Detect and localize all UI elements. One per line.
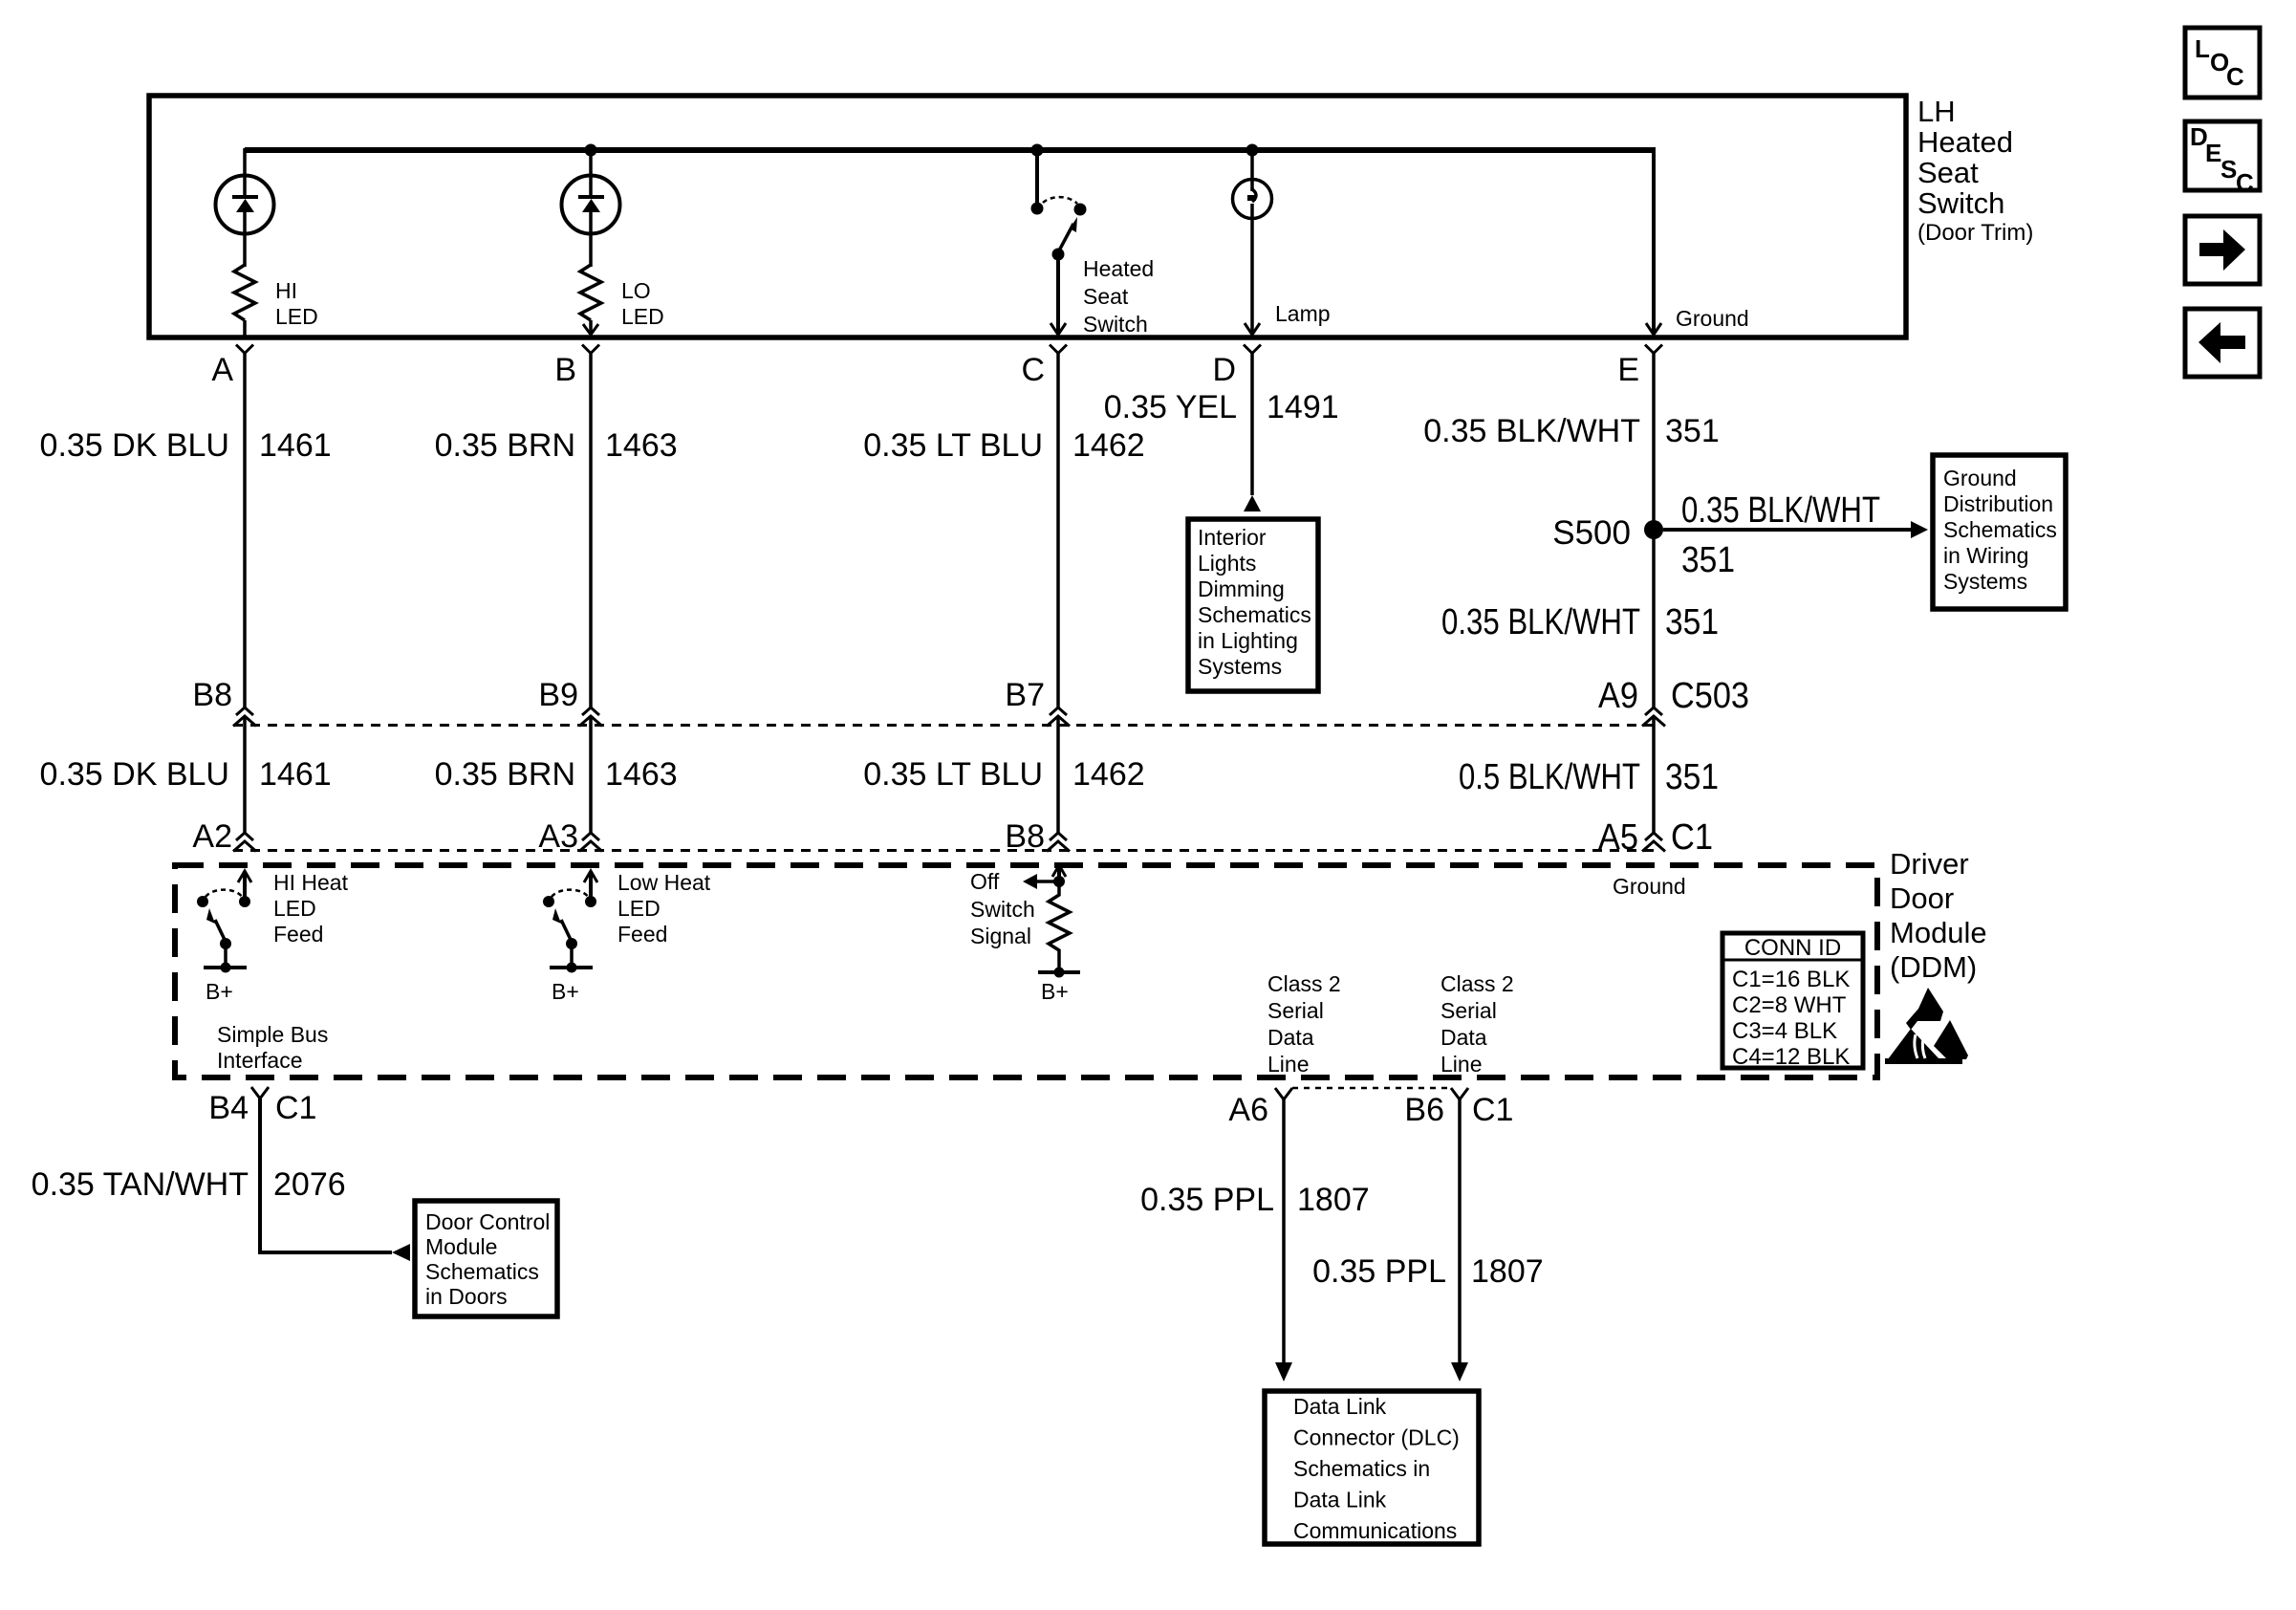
svg-text:S500: S500 — [1552, 514, 1631, 552]
svg-text:0.35 LT BLU: 0.35 LT BLU — [863, 427, 1043, 464]
svg-text:Off: Off — [970, 869, 1000, 894]
svg-text:C3=4 BLK: C3=4 BLK — [1732, 1018, 1837, 1044]
svg-text:2076: 2076 — [273, 1166, 346, 1203]
connector chevrons row2 at x=618 — [579, 833, 602, 852]
svg-text:0.35 BRN: 0.35 BRN — [435, 756, 575, 793]
svg-text:0.35 DK BLU: 0.35 DK BLU — [40, 427, 229, 464]
wire: bus to lamp — [1250, 148, 1254, 182]
svg-text:Heated: Heated — [1083, 256, 1154, 281]
svg-text:Ground: Ground — [1613, 874, 1686, 899]
connector chevrons at x=256 — [233, 707, 256, 727]
svg-text:C: C — [2226, 62, 2244, 91]
reference box: Ground Distribution Schematics in Wiring Systems — [1933, 455, 2066, 609]
nav box: DESC — [2185, 121, 2260, 197]
svg-text:0.35 DK BLU: 0.35 DK BLU — [40, 756, 229, 793]
svg-text:Ground: Ground — [1943, 466, 2017, 490]
resistor: HI LED — [234, 265, 255, 320]
connector bridge dotted line — [1292, 1087, 1451, 1090]
label: 0.35 BRN 1463 (2) — [435, 756, 678, 793]
wire A segment 2 — [243, 716, 247, 834]
svg-text:B8: B8 — [1005, 818, 1045, 855]
wire: bus to LO LED — [589, 148, 593, 197]
label: Simple Bus Interface — [217, 1022, 328, 1073]
svg-text:Distribution: Distribution — [1943, 491, 2053, 516]
svg-text:B4: B4 — [208, 1090, 249, 1126]
nav box: LOC — [2185, 28, 2260, 98]
wire C segment — [1056, 353, 1060, 708]
wire + arrow into pin B — [589, 320, 593, 335]
svg-text:1463: 1463 — [605, 427, 678, 464]
wire: LED to resistor — [243, 211, 247, 267]
svg-text:Lamp: Lamp — [1275, 301, 1331, 326]
label: 0.35 BLK/WHT 351 (below S500) — [1441, 602, 1719, 642]
label: 0.35 DK BLU 1461 (2) — [40, 756, 332, 793]
svg-text:LED: LED — [617, 896, 661, 921]
svg-text:E: E — [1617, 352, 1639, 388]
svg-text:1807: 1807 — [1297, 1182, 1370, 1218]
svg-text:Switch: Switch — [1083, 312, 1148, 337]
DDM switch feed at x=618 — [543, 871, 597, 1004]
svg-text:A: A — [211, 352, 233, 388]
label: 0.35 TAN/WHT 2076 — [32, 1166, 346, 1203]
labels: A2 A3 B8 A5 C1 — [192, 817, 1713, 858]
wire: LED to resistor — [589, 211, 593, 267]
labels: A6 B6 C1 — [1228, 1092, 1513, 1128]
LED indicator HI (A) — [216, 176, 274, 234]
svg-text:B: B — [554, 352, 576, 388]
label: 0.35 YEL 1491 — [1104, 389, 1339, 425]
label: Off Switch Signal — [970, 869, 1035, 948]
label: Class 2 Serial Data Line (B6) — [1440, 971, 1514, 1077]
svg-text:Interface: Interface — [217, 1048, 303, 1073]
svg-text:1461: 1461 — [259, 756, 332, 793]
svg-text:B8: B8 — [192, 677, 232, 713]
svg-text:C1: C1 — [1671, 817, 1713, 858]
svg-text:Door Control: Door Control — [425, 1209, 550, 1234]
wire: bus to HI LED — [243, 148, 247, 197]
wire B segment 2 — [589, 716, 593, 834]
svg-text:0.35 LT BLU: 0.35 LT BLU — [863, 756, 1043, 793]
connector chevrons at x=618 — [579, 707, 602, 727]
svg-text:Feed: Feed — [273, 922, 323, 946]
label: 0.35 LT BLU 1462 (2) — [863, 756, 1144, 793]
label: 0.35 DK BLU 1461 — [40, 427, 332, 464]
svg-text:0.35 BLK/WHT: 0.35 BLK/WHT — [1441, 602, 1640, 642]
svg-text:Ground: Ground — [1676, 306, 1749, 331]
svg-text:351: 351 — [1665, 602, 1719, 642]
wire E segment — [1652, 353, 1656, 708]
label: 0.35 LT BLU 1462 — [863, 427, 1144, 464]
wire: switch fixed contact stub — [1035, 150, 1039, 204]
svg-text:351: 351 — [1665, 757, 1719, 797]
svg-text:Serial: Serial — [1267, 998, 1324, 1023]
svg-text:Dimming: Dimming — [1198, 577, 1285, 601]
connector box: LH Heated Seat Switch — [149, 96, 1906, 337]
svg-text:Module: Module — [1890, 916, 1987, 949]
svg-text:Systems: Systems — [1198, 654, 1282, 679]
label: Class 2 Serial Data Line (A6) — [1267, 971, 1341, 1077]
label: HI LED — [275, 278, 318, 329]
svg-text:L: L — [2195, 34, 2210, 63]
label: 0.35 BLK/WHT 351 (branch) — [1681, 490, 1880, 580]
wire: S500 branch arrow — [1663, 528, 1912, 532]
pin A6 connector — [1275, 1088, 1292, 1099]
LED indicator LO (B) — [562, 176, 620, 234]
svg-text:C503: C503 — [1671, 676, 1749, 716]
pin E connector — [1617, 345, 1662, 389]
svg-text:Data: Data — [1440, 1025, 1487, 1050]
svg-text:Driver: Driver — [1890, 847, 1969, 881]
svg-text:C1: C1 — [275, 1090, 316, 1126]
svg-text:Switch: Switch — [970, 897, 1035, 922]
labels: B8 B9 B7 A9 C503 — [192, 676, 1749, 716]
svg-text:Feed: Feed — [617, 922, 667, 946]
svg-text:C: C — [2236, 168, 2254, 197]
svg-text:C2=8 WHT: C2=8 WHT — [1732, 992, 1847, 1018]
wire: lever to pin C with arrow — [1056, 254, 1060, 335]
svg-text:Heated: Heated — [1917, 125, 2013, 159]
svg-text:0.35 PPL: 0.35 PPL — [1312, 1253, 1446, 1290]
svg-text:0.35 PPL: 0.35 PPL — [1140, 1182, 1274, 1218]
wire A6 — [1282, 1099, 1286, 1363]
svg-text:Seat: Seat — [1083, 284, 1129, 309]
DDM off switch signal pull-up — [1023, 865, 1080, 1004]
connector chevrons at x=1107 — [1047, 707, 1070, 727]
svg-text:Schematics: Schematics — [1943, 517, 2057, 542]
svg-text:C1: C1 — [1472, 1092, 1513, 1128]
connector chevrons row2 at x=256 — [233, 833, 256, 852]
pin C connector — [1021, 345, 1067, 389]
label: 0.35 PPL 1807 (A6) — [1140, 1182, 1370, 1218]
svg-text:CONN ID: CONN ID — [1744, 935, 1841, 961]
switch contact dots — [1031, 203, 1044, 215]
nav box: arrow left — [2185, 309, 2260, 377]
svg-text:A5: A5 — [1598, 817, 1638, 858]
svg-text:Systems: Systems — [1943, 569, 2027, 594]
svg-text:Seat: Seat — [1917, 156, 1979, 189]
junction: bus at C — [1031, 144, 1044, 157]
svg-text:HI Heat: HI Heat — [273, 870, 349, 895]
svg-text:Line: Line — [1267, 1052, 1309, 1077]
svg-text:0.35 BLK/WHT: 0.35 BLK/WHT — [1423, 413, 1640, 449]
svg-text:Class 2: Class 2 — [1267, 971, 1341, 996]
svg-text:1463: 1463 — [605, 756, 678, 793]
switch lever with arrow — [1058, 224, 1073, 252]
svg-text:0.35 BLK/WHT: 0.35 BLK/WHT — [1681, 490, 1880, 531]
label: HI Heat LED Feed — [273, 870, 349, 946]
svg-text:0.5 BLK/WHT: 0.5 BLK/WHT — [1459, 757, 1640, 797]
splice S500 — [1644, 520, 1663, 539]
svg-text:B9: B9 — [538, 677, 578, 713]
svg-text:LH: LH — [1917, 95, 1956, 128]
wire: lamp to pin D with arrow — [1250, 204, 1254, 335]
svg-text:C: C — [1021, 352, 1045, 388]
connector chevrons row2 at x=1730 — [1642, 833, 1665, 852]
svg-text:A3: A3 — [538, 818, 578, 855]
reference box: Door Control Module Schematics in Doors — [415, 1201, 557, 1316]
svg-text:1461: 1461 — [259, 427, 332, 464]
switch travel arc (dashed) — [1043, 197, 1077, 204]
svg-text:0.35 BRN: 0.35 BRN — [435, 427, 575, 464]
reference box: Interior Lights Dimming Schematics in Lighting Systems — [1188, 519, 1318, 691]
svg-text:(DDM): (DDM) — [1890, 950, 1977, 984]
svg-text:LED: LED — [273, 896, 316, 921]
svg-text:1462: 1462 — [1072, 756, 1145, 793]
svg-text:LED: LED — [621, 304, 664, 329]
wire B segment — [589, 353, 593, 708]
off-page arrow (A6) — [1275, 1362, 1292, 1382]
label: 0.5 BLK/WHT 351 (2) — [1459, 757, 1719, 797]
off-page arrow (B6) — [1451, 1362, 1468, 1382]
svg-text:(Door Trim): (Door Trim) — [1917, 220, 2033, 246]
label: LO LED — [621, 278, 664, 329]
svg-text:Lights: Lights — [1198, 551, 1256, 576]
svg-text:Line: Line — [1440, 1052, 1482, 1077]
wire C segment 2 — [1056, 716, 1060, 834]
svg-text:Signal: Signal — [970, 924, 1031, 948]
label: 0.35 BRN 1463 — [435, 427, 678, 464]
svg-text:Schematics: Schematics — [425, 1259, 539, 1284]
svg-text:Communications: Communications — [1293, 1518, 1457, 1543]
label: 0.35 PPL 1807 (B6) — [1312, 1253, 1544, 1290]
svg-text:C1=16 BLK: C1=16 BLK — [1732, 967, 1850, 992]
svg-text:1807: 1807 — [1471, 1253, 1544, 1290]
svg-text:LED: LED — [275, 304, 318, 329]
off-page arrow (D) — [1244, 495, 1261, 511]
svg-text:Serial: Serial — [1440, 998, 1497, 1023]
svg-text:B6: B6 — [1404, 1092, 1444, 1128]
pin B4 connector — [208, 1087, 316, 1126]
svg-text:Door: Door — [1890, 881, 1954, 915]
svg-text:A6: A6 — [1228, 1092, 1268, 1128]
connector chevrons row2 at x=1107 — [1047, 833, 1070, 852]
svg-text:in Doors: in Doors — [425, 1284, 508, 1309]
svg-text:0.35 YEL: 0.35 YEL — [1104, 389, 1237, 425]
wire: internal B+ bus — [245, 147, 1654, 153]
svg-text:B+: B+ — [552, 979, 579, 1004]
svg-text:1491: 1491 — [1267, 389, 1339, 425]
symbol: ESD sensitive device — [1885, 988, 1968, 1064]
svg-text:Simple Bus: Simple Bus — [217, 1022, 328, 1047]
svg-text:B7: B7 — [1005, 677, 1045, 713]
wire: bus corner to pin E with arrow — [1652, 147, 1656, 335]
svg-text:351: 351 — [1665, 413, 1720, 449]
wire B6 — [1458, 1099, 1462, 1363]
pin B6 connector — [1451, 1088, 1468, 1099]
svg-text:A2: A2 — [192, 818, 232, 855]
svg-text:B+: B+ — [1041, 979, 1069, 1004]
svg-text:Schematics in: Schematics in — [1293, 1456, 1430, 1481]
pin B connector — [554, 345, 599, 389]
wire D segment — [1250, 353, 1254, 495]
resistor: LO LED — [580, 265, 601, 320]
table: CONN ID — [1722, 933, 1863, 1070]
svg-text:Schematics: Schematics — [1198, 602, 1311, 627]
off-page arrow (B4) — [392, 1244, 410, 1261]
svg-text:351: 351 — [1681, 540, 1735, 580]
svg-text:E: E — [2205, 139, 2221, 167]
junction: bus at B — [585, 144, 597, 157]
label: Heated Seat Switch — [1083, 256, 1154, 337]
wire A segment — [243, 353, 247, 708]
svg-text:1462: 1462 — [1072, 427, 1145, 464]
svg-text:Data: Data — [1267, 1025, 1314, 1050]
svg-text:C4=12 BLK: C4=12 BLK — [1732, 1044, 1850, 1070]
lamp symbol — [1233, 180, 1272, 219]
svg-text:Data Link: Data Link — [1293, 1488, 1387, 1512]
svg-text:Data Link: Data Link — [1293, 1394, 1387, 1419]
pin D connector — [1212, 345, 1261, 389]
pin A connector — [211, 345, 253, 389]
svg-text:0.35 TAN/WHT: 0.35 TAN/WHT — [32, 1166, 249, 1203]
label: Low Heat LED Feed — [617, 870, 711, 946]
wire E segment 2 — [1652, 716, 1656, 834]
connector chevrons at x=1730 — [1642, 707, 1665, 727]
svg-text:LO: LO — [621, 278, 651, 303]
svg-text:Interior: Interior — [1198, 525, 1267, 550]
reference box: Data Link Connector (DLC) Schematics in Data Link Communications — [1265, 1391, 1479, 1544]
DDM switch feed at x=256 — [197, 871, 251, 1004]
svg-text:in Wiring: in Wiring — [1943, 543, 2028, 568]
svg-text:Connector (DLC): Connector (DLC) — [1293, 1425, 1460, 1450]
nav box: arrow right — [2185, 216, 2260, 284]
junction: bus at D — [1246, 144, 1259, 157]
wire: resistor to pin A — [243, 320, 247, 336]
module name: LH Heated Seat Switch (Door Trim) — [1917, 95, 2033, 246]
svg-text:D: D — [1212, 352, 1236, 388]
svg-text:Module: Module — [425, 1234, 497, 1259]
module name: Driver Door Module (DDM) — [1890, 847, 1987, 984]
connector C1 dashed line — [233, 849, 1654, 852]
wire B4 — [260, 1099, 392, 1252]
svg-text:A9: A9 — [1598, 676, 1638, 716]
svg-text:S: S — [2220, 155, 2237, 184]
svg-text:Class 2: Class 2 — [1440, 971, 1514, 996]
label: 0.35 BLK/WHT 351 — [1423, 413, 1719, 449]
svg-text:in Lighting: in Lighting — [1198, 628, 1298, 653]
svg-text:HI: HI — [275, 278, 297, 303]
svg-text:Switch: Switch — [1917, 186, 2004, 220]
module box: Driver Door Module (dashed) — [175, 865, 1877, 1077]
connector C503 dashed line — [233, 724, 1654, 727]
svg-text:Low Heat: Low Heat — [617, 870, 711, 895]
svg-text:B+: B+ — [206, 979, 233, 1004]
